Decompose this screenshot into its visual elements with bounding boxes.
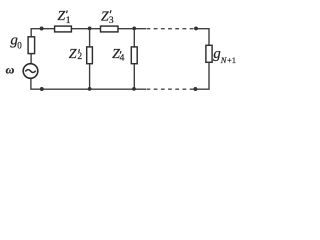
- node dot input top: [40, 27, 44, 31]
- node dot Z4 bottom: [132, 87, 136, 91]
- node dot output top: [194, 26, 198, 30]
- wire: bottom rail dashed: [147, 88, 194, 90]
- wire: top rail between Z1 and Z3: [71, 28, 100, 30]
- wire: top rail dashed: [147, 28, 195, 30]
- svg-text:Z: Z: [57, 9, 65, 24]
- node dot Z2 top: [88, 27, 92, 31]
- node dot input bottom: [40, 87, 44, 91]
- svg-text:3: 3: [109, 16, 114, 26]
- svg-text:2: 2: [77, 52, 82, 62]
- wire: top rail left segment with input corner: [31, 29, 54, 37]
- svg-text:+1: +1: [227, 55, 236, 65]
- svg-text:0: 0: [17, 41, 22, 51]
- node dot output bottom: [193, 87, 197, 91]
- resistor g0: [28, 37, 34, 54]
- wire: source branch g0 to circle: [30, 54, 32, 64]
- svg-text:ω: ω: [6, 63, 15, 77]
- impedance Z3 (series): [101, 26, 119, 32]
- svg-text:4: 4: [120, 54, 125, 64]
- svg-text:1: 1: [66, 16, 71, 26]
- impedance Z1 (series): [55, 26, 72, 32]
- node dot Z4 top: [132, 27, 136, 31]
- resistor gN+1 (load): [206, 45, 212, 62]
- wire: top rail after Z3 solid: [118, 28, 146, 30]
- wire: bottom right corner to load: [195, 62, 209, 89]
- svg-text:Z: Z: [69, 47, 77, 62]
- impedance Z4 (shunt): [133, 29, 135, 47]
- AC source: [23, 64, 38, 79]
- node dot Z2 bottom: [88, 87, 92, 91]
- wire: top right corner to load: [196, 29, 209, 46]
- wire: bottom rail solid: [31, 79, 146, 89]
- svg-text:Z: Z: [101, 9, 109, 24]
- impedance Z2 (shunt): [89, 29, 91, 47]
